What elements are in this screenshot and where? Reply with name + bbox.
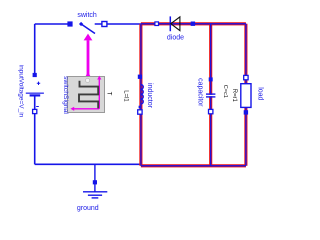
- output connector triangle: [85, 72, 90, 77]
- switchSignal block (boolean pulse source): [68, 76, 112, 113]
- ground G: [83, 164, 107, 198]
- boolean indicator circle: [86, 78, 90, 82]
- contact dot: [79, 22, 83, 26]
- right pin line: [95, 23, 102, 25]
- svg-text:inputVoltage=V_in: inputVoltage=V_in: [18, 65, 25, 118]
- minus sign: [36, 106, 39, 108]
- connection end marker (filled square): [93, 180, 97, 184]
- diode D1: [155, 16, 195, 31]
- left pin (filled square): [67, 21, 72, 26]
- plate gap mask: [206, 95, 215, 96]
- pin p (filled square): [33, 73, 37, 77]
- wire: red highlighted net (top bus, inductor branch, capacitor branch, load branch, bottom bus): [141, 24, 246, 166]
- wire: left vertical wire source bottom: [34, 95, 36, 164]
- wire: top wire from source to switch: [35, 23, 68, 25]
- svg-text:load: load: [256, 87, 263, 100]
- pin n (hollow square): [138, 110, 142, 114]
- pin p (hollow square): [244, 75, 248, 79]
- svg-text:diode: diode: [167, 35, 184, 42]
- pin n (hollow square): [209, 109, 213, 113]
- block body: [68, 77, 105, 113]
- svg-text:inductor: inductor: [146, 83, 153, 109]
- left pin (hollow square): [155, 22, 159, 26]
- pulse trace: [79, 81, 98, 109]
- pin p (filled square): [138, 75, 142, 79]
- wire: left vertical wire source top: [34, 24, 36, 75]
- svg-text:ground: ground: [77, 205, 99, 212]
- coil arcs: [141, 85, 143, 105]
- ground bar 2: [88, 194, 102, 196]
- connection end marker: [139, 106, 142, 109]
- svg-text:capacitor: capacitor: [197, 78, 204, 107]
- svg-text:switchSignal: switchSignal: [62, 76, 69, 114]
- svg-text:C=c1: C=c1: [222, 85, 228, 98]
- svg-text:T: T: [106, 92, 112, 96]
- pin p (filled square): [209, 77, 213, 81]
- triangle (anode): [171, 17, 180, 31]
- right pin (hollow square): [102, 22, 107, 27]
- load resistor R1: [241, 75, 251, 114]
- cathode bar: [169, 16, 171, 31]
- pin n (hollow square): [33, 109, 37, 113]
- top plate: [206, 93, 215, 95]
- voltage source V1 battery symbol: [26, 73, 44, 114]
- bottom plate: [206, 96, 215, 98]
- x axis (magenta): [74, 108, 100, 110]
- ground bar 3: [92, 197, 99, 199]
- right pin (filled square): [191, 22, 195, 26]
- negative plate (short thick): [30, 94, 41, 96]
- arrow head: [84, 34, 93, 41]
- y axis (magenta): [98, 79, 100, 109]
- positive plate (long): [26, 92, 44, 94]
- capacitor C1: [206, 77, 215, 113]
- wire: switch to node A: [107, 23, 141, 25]
- ground bar 1: [83, 191, 107, 193]
- inductor L1: [138, 75, 144, 115]
- svg-text:R=r1: R=r1: [231, 89, 237, 103]
- plus sign: [37, 82, 40, 85]
- wire: ground stub: [94, 164, 96, 192]
- switch S1: [67, 21, 107, 33]
- svg-text:L=l1: L=l1: [122, 90, 128, 102]
- lever (open): [81, 24, 95, 34]
- magenta control connection from switchSignal to switch: [84, 34, 93, 77]
- wire stem: [87, 40, 90, 76]
- pin n (filled square): [244, 110, 248, 114]
- resistor body: [241, 84, 251, 108]
- wire: bottom wire: [35, 163, 141, 165]
- svg-text:switch: switch: [77, 12, 97, 19]
